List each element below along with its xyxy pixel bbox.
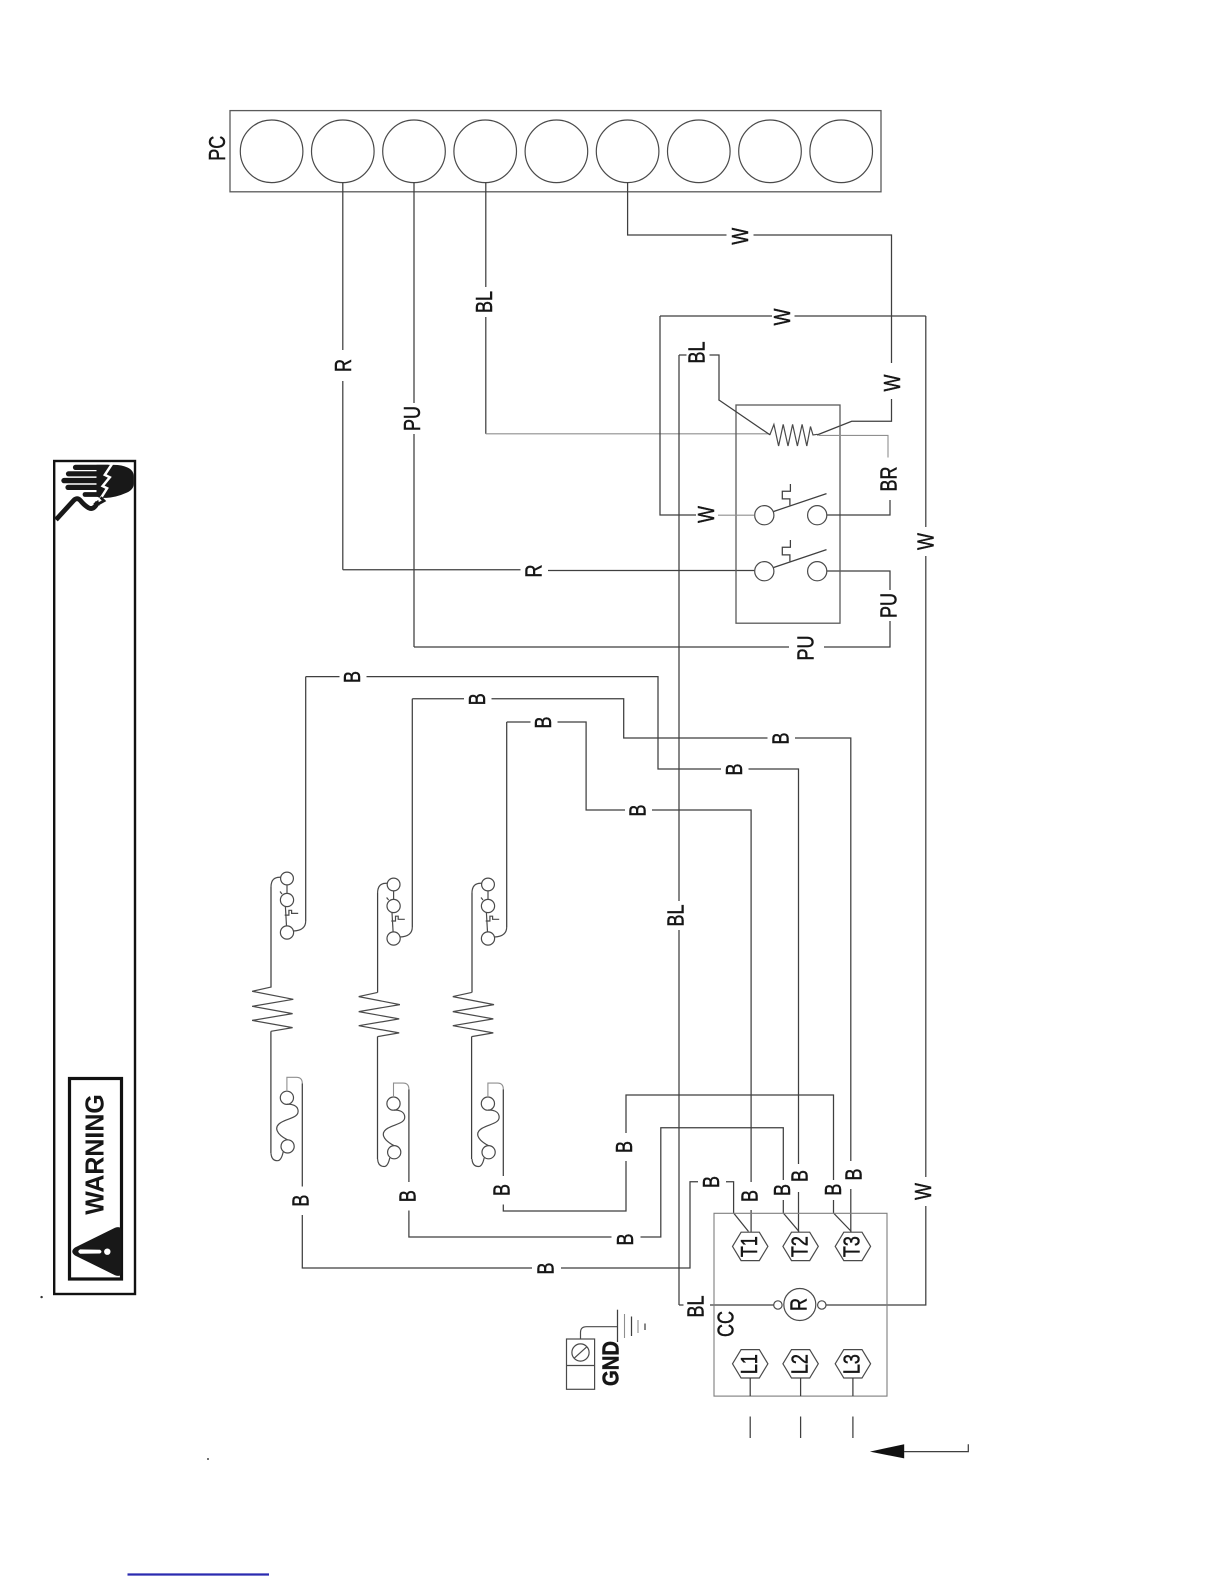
branch 1 limit switch pivot tick <box>280 892 282 895</box>
branch 2 top B wire right part <box>492 699 768 738</box>
branch 3 fuse top terminal <box>481 1097 494 1110</box>
wire BL long vertical upper <box>678 355 680 901</box>
warning triangle <box>72 1227 121 1276</box>
relay switch 2 blade <box>774 550 827 568</box>
branch 3 limit switch blade <box>486 913 487 932</box>
earth ground bar 2 <box>624 1314 626 1338</box>
wire BL net: PC pin 4 down <box>485 182 487 287</box>
svg-text:T1: T1 <box>737 1236 763 1257</box>
branch 1 fuse bottom terminal <box>281 1140 294 1153</box>
wire R net: PC pin 2 down <box>342 182 344 350</box>
PC pin 5 <box>525 120 588 183</box>
terminal T3 hexagon <box>835 1232 870 1260</box>
GND terminal block <box>567 1339 595 1389</box>
cross run to T2 corner <box>749 769 799 1164</box>
wire R net horizontal to relay switch 2 <box>343 569 521 571</box>
svg-text:B: B <box>612 1141 638 1153</box>
wire PU net bottom horizontal <box>414 646 789 648</box>
cross run to T3 corner <box>795 738 851 1161</box>
heater branch 1 limit switch top terminal <box>281 872 294 885</box>
branch 1 limit switch flag <box>285 910 299 915</box>
branch 2 left vertical wire <box>377 893 379 993</box>
svg-text:PC: PC <box>205 136 231 161</box>
BL bracket to relay resistor <box>679 354 687 356</box>
GND screw head <box>572 1344 589 1361</box>
relay resistor right gray lead <box>819 435 889 457</box>
branch 1 fuse right vertical <box>301 1084 303 1187</box>
shock icon finger bar 1 <box>76 465 109 470</box>
terminal L1 hexagon <box>733 1350 768 1378</box>
branch 1 top B wire right part <box>367 677 722 769</box>
wire W long right vertical upper <box>925 316 927 527</box>
branch 3 wire resistor to fuse <box>471 1037 473 1160</box>
svg-text:R: R <box>521 565 547 578</box>
svg-text:WARNING: WARNING <box>81 1094 110 1215</box>
GND terminal block divider <box>567 1365 595 1367</box>
svg-text:B: B <box>770 1184 796 1196</box>
GND screw slot <box>574 1347 587 1358</box>
PC pin 8 <box>739 120 802 183</box>
branch 1 bottom vertical <box>302 1215 532 1268</box>
svg-text:BR: BR <box>877 467 903 492</box>
x626 vertical upper part and cross to T3 <box>626 1095 834 1180</box>
branch 1 limit switch disc <box>280 893 293 906</box>
svg-text:L1: L1 <box>737 1354 763 1374</box>
earth ground bar 5 <box>644 1324 646 1331</box>
svg-text:PU: PU <box>877 593 903 618</box>
branch 2 limit switch pivot tick <box>387 898 389 901</box>
svg-text:B: B <box>626 805 652 817</box>
heater element resistor branch 1 <box>252 987 293 1031</box>
branch 3 fuse link squiggle <box>478 1110 499 1146</box>
WARNING inner box <box>70 1079 122 1280</box>
svg-text:W: W <box>914 533 940 550</box>
branch 1 limit right hook <box>293 921 305 931</box>
T1 drop lower part <box>750 1210 752 1232</box>
relay box <box>736 405 840 623</box>
wire W to switch 1 left contact <box>718 514 755 516</box>
T3 drop lower part <box>850 1189 852 1232</box>
terminal L2 hexagon <box>783 1350 818 1378</box>
relay switch 2 left contact <box>755 562 774 581</box>
branch 1 fuse top stem and jog <box>287 1077 302 1091</box>
GND wire to earth <box>581 1327 618 1339</box>
svg-text:B: B <box>787 1170 813 1182</box>
wire PU net: PC pin 3 down <box>413 182 415 403</box>
svg-text:B: B <box>531 717 557 729</box>
branch 1 limit left hook <box>271 877 281 887</box>
branch 3 right vertical wire to top B <box>506 722 508 927</box>
svg-text:B: B <box>821 1184 847 1196</box>
wire L2 stub below box <box>800 1417 802 1439</box>
wire R net vertical lower part <box>342 381 344 570</box>
earth ground bar 4 <box>637 1320 639 1333</box>
wire R net horizontal into relay box <box>548 570 754 572</box>
T3 diagonal drop lower part <box>834 1200 852 1232</box>
branch 2 limit switch blade <box>392 913 393 932</box>
wire L1 stub inside box <box>749 1378 751 1396</box>
branch 3 limit switch disc <box>481 899 494 912</box>
wire W loop left vertical <box>660 316 696 515</box>
wire W long vertical to CC coil <box>826 1206 926 1305</box>
branch 2 bottom run right part <box>641 1128 784 1237</box>
T1 bracket right part and diagonal <box>726 1182 749 1232</box>
wire BL long vertical lower <box>678 930 680 1305</box>
wire W long right vertical lower <box>925 556 927 1177</box>
svg-text:W: W <box>694 506 720 523</box>
shock icon bolt arrowhead <box>93 500 99 506</box>
svg-text:B: B <box>534 1263 560 1275</box>
svg-text:PU: PU <box>794 636 820 661</box>
relay heater resistor R1 <box>770 424 818 446</box>
branch 3 limit right hook <box>494 927 506 937</box>
svg-text:W: W <box>770 308 796 325</box>
heater branch 2 limit switch top terminal <box>387 878 400 891</box>
heater element resistor branch 2 <box>359 992 400 1036</box>
rotation arrow head <box>870 1444 904 1458</box>
svg-text:BL: BL <box>472 291 498 313</box>
branch 2 top B wire <box>412 698 464 700</box>
svg-text:PU: PU <box>400 406 426 431</box>
branch 2 fuse top stem and jog <box>394 1083 409 1097</box>
contactor coil R circle <box>784 1289 816 1321</box>
branch 1 top B wire <box>306 676 340 678</box>
svg-text:CC: CC <box>714 1311 740 1337</box>
branch 2 limit switch bottom terminal <box>387 932 400 945</box>
BL bracket right part <box>710 355 720 400</box>
branch 2 limit switch stem <box>393 891 395 900</box>
branch 2 fuse top terminal <box>387 1097 400 1110</box>
wire PU net up to relay switch 2 contact <box>827 571 890 590</box>
branch 2 right vertical wire to top B <box>411 699 413 927</box>
page dot 2 <box>207 1458 209 1460</box>
rotation arrow line <box>904 1444 968 1451</box>
branch 3 limit switch flag <box>486 916 500 921</box>
branch 3 fuse right vertical <box>502 1089 504 1176</box>
relay switch 1 right contact <box>808 506 827 525</box>
svg-text:R: R <box>331 359 357 372</box>
wire L2 stub inside box <box>800 1378 802 1396</box>
svg-text:B: B <box>768 733 794 745</box>
branch 1 limit switch blade <box>285 907 286 926</box>
shock icon finger bar 3 <box>64 478 98 483</box>
svg-text:GND: GND <box>597 1341 624 1386</box>
relay resistor left lead diagonal <box>718 400 770 435</box>
warning sidebar outer box <box>54 461 135 1294</box>
coil right terminal <box>818 1301 826 1309</box>
branch 3 bottom vertical <box>503 1161 626 1211</box>
terminal T2 hexagon <box>783 1232 818 1260</box>
wire L1 stub below box <box>749 1417 751 1439</box>
shock icon bolt black tail <box>98 497 104 504</box>
svg-text:B: B <box>395 1190 421 1202</box>
warning exclamation dot <box>104 1249 110 1255</box>
branch 3 limit switch bottom terminal <box>481 932 494 945</box>
heater element resistor branch 3 <box>453 992 494 1036</box>
svg-text:W: W <box>728 227 754 244</box>
svg-text:BL: BL <box>685 342 711 364</box>
wire PU net horizontal right part <box>824 621 890 647</box>
PC pin 2 <box>312 120 375 183</box>
branch 2 limit left hook <box>378 883 388 893</box>
wire BR to switch 1 right contact <box>827 500 890 515</box>
wire L3 stub inside box <box>852 1378 854 1396</box>
wire W loop top right part <box>795 315 926 317</box>
svg-text:T3: T3 <box>840 1236 866 1257</box>
contactor CC box <box>714 1213 887 1396</box>
branch 3 fuse U-bend <box>472 1158 484 1167</box>
relay switch 2 right contact <box>808 562 827 581</box>
branch 1 fuse U-bend <box>271 1152 283 1161</box>
wire BL net horizontal to relay resistor <box>486 433 770 435</box>
svg-text:B: B <box>738 1190 764 1202</box>
svg-text:B: B <box>490 1184 516 1196</box>
branch 3 limit switch pivot tick <box>481 898 483 901</box>
svg-text:B: B <box>465 693 491 705</box>
branch 3 left vertical wire <box>471 893 473 993</box>
wire BL net vertical lower part <box>485 317 487 434</box>
shock icon wavy wire <box>56 499 98 520</box>
svg-text:W: W <box>911 1183 937 1200</box>
svg-text:R: R <box>787 1298 813 1311</box>
branch 2 fuse right vertical <box>408 1089 410 1182</box>
blue page line <box>128 1573 270 1575</box>
page dot 1 <box>40 1296 42 1298</box>
wire BL coil feed right part <box>710 1304 774 1306</box>
T2 diagonal drop lower part <box>783 1200 799 1232</box>
branch 1 right vertical wire to top B <box>305 677 307 921</box>
branch 3 fuse top stem and jog <box>488 1083 503 1097</box>
shock icon thumb bar <box>85 492 101 497</box>
svg-text:W: W <box>880 374 906 391</box>
svg-text:B: B <box>722 764 748 776</box>
branch 2 limit right hook <box>400 927 412 937</box>
svg-text:L3: L3 <box>840 1354 866 1374</box>
relay switch 1 thermal flag <box>782 484 790 505</box>
branch 1 left vertical wire <box>270 887 272 988</box>
earth ground bar 3 <box>631 1317 633 1337</box>
svg-text:L2: L2 <box>787 1354 813 1374</box>
shock icon palm <box>97 465 134 498</box>
branch 2 fuse link squiggle <box>383 1110 404 1146</box>
svg-text:B: B <box>841 1169 867 1181</box>
branch 3 limit left hook <box>472 883 482 893</box>
PC pin 9 <box>810 120 873 183</box>
branch 3 top B wire right part <box>558 722 626 810</box>
svg-text:BL: BL <box>664 905 690 927</box>
relay switch 1 blade <box>774 494 827 512</box>
shock icon lightning bolt white <box>100 463 113 500</box>
PC pin 6 <box>596 120 659 183</box>
PC pin 7 <box>668 120 731 183</box>
svg-text:B: B <box>340 671 366 683</box>
warning exclamation bar <box>78 1249 101 1253</box>
branch 2 fuse U-bend <box>378 1158 390 1167</box>
branch 2 limit switch disc <box>387 899 400 912</box>
PC pin 4 <box>454 120 517 183</box>
relay switch 1 left contact <box>755 506 774 525</box>
cross run to T1 corner <box>652 810 751 1182</box>
branch 2 fuse bottom terminal <box>388 1146 401 1159</box>
terminal T1 hexagon <box>733 1232 768 1260</box>
heater branch 3 limit switch top terminal <box>482 878 495 891</box>
shock icon finger bar 2 <box>69 471 99 476</box>
wire L3 stub below box <box>852 1417 854 1439</box>
branch 3 limit switch stem <box>487 891 489 900</box>
svg-text:BL: BL <box>684 1296 710 1318</box>
relay switch 2 thermal flag <box>782 540 790 561</box>
branch 3 fuse bottom terminal <box>482 1146 495 1159</box>
wire W net down to relay resistor right lead <box>817 399 892 435</box>
plug connector PC body <box>230 111 881 192</box>
wire BL into CC coil left <box>679 1304 684 1306</box>
branch 1 wire resistor to fuse <box>270 1031 272 1153</box>
wire W net: PC pin 6 down <box>628 182 727 235</box>
svg-text:B: B <box>699 1176 725 1188</box>
branch 1 limit switch stem <box>286 885 288 894</box>
branch 1 bottom run right part <box>561 1182 698 1268</box>
branch 2 limit switch flag <box>391 916 405 921</box>
wire W net horizontal right and down <box>754 235 892 363</box>
branch 1 limit switch bottom terminal <box>280 926 293 939</box>
wire W loop top horizontal <box>660 315 772 317</box>
coil left terminal <box>774 1301 782 1309</box>
earth ground bar 1 <box>617 1310 619 1342</box>
PC pin 1 <box>240 120 303 183</box>
T2 drop lower part <box>798 1192 800 1232</box>
shock icon finger bar 4 <box>68 485 98 490</box>
branch 1 fuse top terminal <box>280 1091 293 1104</box>
svg-text:B: B <box>289 1195 315 1207</box>
svg-text:T2: T2 <box>787 1236 813 1257</box>
branch 2 wire resistor to fuse <box>377 1037 379 1160</box>
PC pin 3 <box>383 120 446 183</box>
terminal L3 hexagon <box>835 1350 870 1378</box>
branch 1 fuse link squiggle <box>277 1104 298 1140</box>
wire PU net vertical lower part <box>413 434 415 647</box>
branch 2 bottom vertical <box>409 1211 612 1238</box>
branch 3 top B wire <box>507 721 531 723</box>
svg-text:B: B <box>613 1234 639 1246</box>
